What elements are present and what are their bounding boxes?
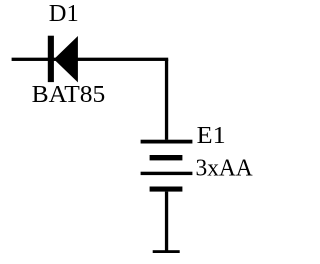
terminal [153, 250, 180, 253]
wire [165, 59, 168, 140]
svg-text:BAT85: BAT85 [32, 81, 106, 108]
svg-text:E1: E1 [197, 122, 226, 149]
diode D1 [48, 36, 78, 83]
wire [12, 58, 169, 61]
svg-text:3xAA: 3xAA [196, 155, 253, 182]
svg-text:D1: D1 [49, 0, 79, 27]
battery E1 [141, 140, 193, 192]
wire [165, 192, 168, 252]
